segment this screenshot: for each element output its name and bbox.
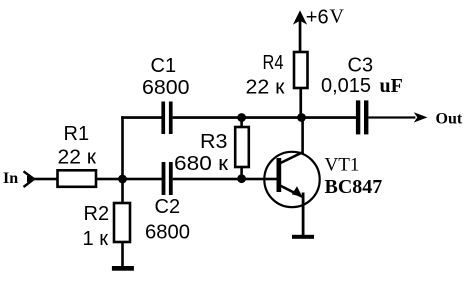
wire node A to R2	[121, 179, 124, 203]
node In terminal arrow	[24, 171, 35, 187]
node D junction dot (R3 bottom)	[237, 174, 246, 183]
capacitor C1	[161, 102, 172, 135]
label C3 value 0,015 uF	[321, 75, 403, 97]
wire node D to transistor base	[242, 178, 277, 181]
resistor R3	[235, 127, 249, 167]
ground (below R2)	[112, 266, 134, 271]
svg-text:C2: C2	[155, 196, 181, 218]
wire top rail C1 to node B	[173, 116, 243, 119]
base bar	[277, 158, 282, 192]
wire R3 top lead	[240, 118, 243, 128]
svg-text:VT1: VT1	[325, 155, 360, 176]
svg-text:22 к: 22 к	[246, 76, 285, 98]
wire C3 to Out arrow	[368, 116, 415, 118]
svg-text:+6: +6	[306, 6, 329, 28]
svg-text:BC847: BC847	[325, 176, 383, 198]
svg-text:6800: 6800	[145, 222, 190, 244]
resistor R2	[114, 203, 130, 242]
node Out terminal arrow	[414, 112, 428, 122]
svg-text:In: In	[3, 170, 18, 187]
wire top rail node C to C3	[302, 116, 357, 119]
svg-text:1 к: 1 к	[83, 228, 109, 250]
wire C2 to node D	[173, 178, 242, 181]
transistor VT1	[264, 118, 319, 236]
wire top rail left segment to C1	[121, 116, 162, 119]
collector wire from node C into circle	[301, 118, 304, 155]
svg-text:680 к: 680 к	[174, 153, 228, 175]
svg-text:uF: uF	[380, 75, 403, 97]
svg-text:C1: C1	[151, 55, 177, 77]
emitter diagonal	[280, 186, 303, 197]
svg-text:V: V	[330, 6, 345, 28]
svg-text:R1: R1	[64, 123, 90, 145]
ground (below VT1 emitter)	[292, 235, 314, 239]
wire In-arrow to R1	[33, 178, 58, 181]
emitter arrowhead	[292, 186, 303, 197]
svg-text:R2: R2	[84, 203, 110, 225]
wire R2 to ground	[121, 242, 124, 267]
svg-text:Out: Out	[436, 111, 463, 128]
emitter wire to ground	[302, 193, 305, 236]
power +6V arrow	[293, 10, 307, 52]
wire R4 to node C	[299, 88, 302, 118]
capacitor C2	[162, 162, 173, 195]
wire node A up to top rail (left branch)	[121, 116, 124, 179]
wire R3 bottom lead	[240, 167, 243, 179]
node A junction dot	[118, 175, 127, 184]
svg-text:R3: R3	[200, 131, 228, 153]
wire node A to C2	[123, 178, 163, 181]
wire R1 to node A	[96, 178, 124, 181]
resistor R4	[294, 52, 308, 88]
node C junction dot (collector / R4)	[297, 113, 306, 122]
wire top rail node B to node C	[242, 116, 303, 119]
svg-text:22 к: 22 к	[58, 147, 97, 169]
svg-text:R4: R4	[263, 52, 284, 74]
svg-text:C3: C3	[348, 54, 374, 76]
capacitor C3	[356, 100, 369, 134]
node B junction dot (R3 top)	[237, 113, 246, 122]
label +6V	[306, 6, 345, 29]
svg-text:6800: 6800	[142, 77, 190, 99]
transistor body circle	[264, 152, 319, 207]
collector diagonal	[281, 152, 304, 163]
resistor R1	[58, 170, 97, 187]
svg-text:0,015: 0,015	[321, 75, 371, 97]
